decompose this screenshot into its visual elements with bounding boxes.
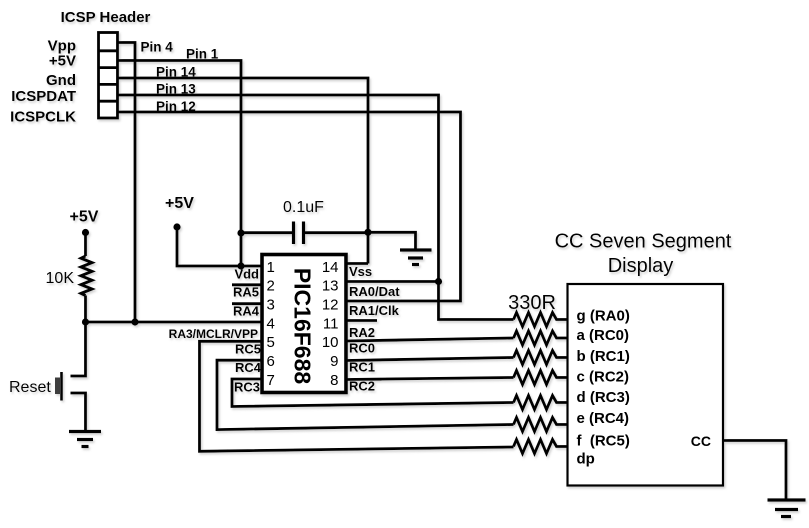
- svg-text:Pin 13: Pin 13: [156, 82, 196, 97]
- node junction Pin1 wire / Vdd net: [237, 262, 244, 269]
- connector J1 cell dividers: [99, 51, 118, 101]
- wire ICSP +5V to Vdd pin1: [118, 61, 242, 267]
- wire Vss net to ground GND2: [368, 232, 416, 250]
- svg-text:RA0/Dat: RA0/Dat: [349, 284, 400, 299]
- svg-text:RA5: RA5: [233, 285, 259, 300]
- svg-text:Vss: Vss: [349, 264, 372, 279]
- svg-text:RC2: RC2: [349, 379, 375, 394]
- svg-text:2: 2: [267, 278, 275, 295]
- svg-text:RC1: RC1: [349, 360, 375, 375]
- node junction Pin4 wire / RA3 net: [131, 318, 138, 325]
- wire stub RA4 pin3: [232, 302, 262, 305]
- switch SW1 reset lower contact: [71, 393, 86, 432]
- svg-text:Pin 12: Pin 12: [156, 99, 196, 114]
- wire CC common cathode to ground: [723, 441, 786, 501]
- node junction Vss net / capacitor / ground: [364, 229, 371, 236]
- svg-text:3: 3: [267, 297, 275, 314]
- resistor R2 segment g: [514, 313, 568, 327]
- svg-text:RA2: RA2: [349, 325, 375, 340]
- svg-text:10K: 10K: [46, 270, 75, 287]
- wire stub RA5 pin2: [232, 283, 262, 286]
- svg-text:dp: dp: [577, 451, 595, 468]
- svg-text:+5V: +5V: [165, 195, 194, 212]
- wire RC0 pin10 to segment a: [346, 338, 514, 341]
- svg-text:f (RC5): f (RC5): [577, 433, 630, 450]
- svg-text:RA4: RA4: [233, 303, 260, 318]
- node junction R1/reset/RA3: [82, 318, 89, 325]
- resistor R8 segment f: [514, 440, 568, 454]
- node junction RA0/Dat / ICSPDAT / segment g: [435, 278, 442, 285]
- svg-text:330R: 330R: [508, 292, 556, 314]
- svg-text:Pin 14: Pin 14: [156, 65, 196, 80]
- resistor R1 10K: [81, 256, 92, 296]
- svg-text:RC5: RC5: [235, 342, 261, 357]
- wire Vpp to pin4 RA3/MCLR net: [118, 43, 136, 323]
- op IC U1 PIC16F688 body: [262, 255, 346, 393]
- capacitor C1 left plate: [292, 222, 295, 245]
- svg-text:PIC16F688: PIC16F688: [290, 268, 316, 385]
- node junction Vdd net / capacitor: [237, 229, 244, 236]
- wire Vdd to capacitor C1: [241, 231, 294, 234]
- svg-text:Gnd: Gnd: [46, 72, 76, 89]
- resistor R7 segment e: [514, 418, 568, 432]
- svg-text:CC: CC: [691, 433, 711, 449]
- wire stub Vss pin14: [346, 262, 368, 265]
- wire ICSPDAT to RA0/Dat pin13 and segment g: [118, 95, 514, 320]
- svg-text:c (RC2): c (RC2): [577, 369, 630, 386]
- ground GND3 display cathode: [768, 500, 806, 517]
- svg-text:1: 1: [267, 259, 275, 276]
- svg-text:RC3: RC3: [234, 379, 260, 394]
- wire +5V to Vdd pin1: [177, 227, 262, 266]
- svg-text:RC4: RC4: [235, 360, 262, 375]
- svg-text:9: 9: [330, 353, 338, 370]
- svg-text:g (RA0): g (RA0): [577, 308, 630, 325]
- switch SW1 actuator bar: [60, 372, 63, 401]
- svg-text:CC Seven Segment: CC Seven Segment: [555, 231, 732, 253]
- svg-text:Reset: Reset: [9, 379, 51, 396]
- svg-text:Display: Display: [608, 255, 674, 277]
- svg-text:ICSPCLK: ICSPCLK: [10, 109, 76, 126]
- svg-text:e (RC4): e (RC4): [577, 410, 630, 427]
- svg-text:d (RC3): d (RC3): [577, 389, 630, 406]
- svg-text:7: 7: [267, 372, 275, 389]
- wire resistor R1 to junction: [84, 296, 87, 323]
- svg-text:Pin 1: Pin 1: [186, 47, 219, 62]
- wire RA3/MCLR/VPP net: [86, 321, 263, 324]
- ground GND2 top middle: [400, 250, 432, 265]
- svg-text:5: 5: [267, 334, 275, 351]
- svg-text:Vdd: Vdd: [234, 267, 259, 282]
- resistor R6 segment d: [514, 396, 568, 410]
- svg-text:RA3/MCLR/VPP: RA3/MCLR/VPP: [169, 327, 258, 341]
- node +5V Vdd terminal dot: [173, 223, 180, 230]
- svg-text:6: 6: [267, 353, 275, 370]
- svg-text:+5V: +5V: [49, 53, 76, 70]
- svg-text:ICSP Header: ICSP Header: [61, 9, 151, 26]
- svg-text:14: 14: [322, 259, 339, 276]
- wire capacitor C1 to Vss net: [304, 231, 369, 234]
- switch SW1 reset upper contact: [71, 322, 86, 376]
- wire ICSP Gnd to Vss pin14: [118, 78, 369, 264]
- svg-text:a (RC0): a (RC0): [577, 327, 630, 344]
- node +5V terminal dot: [82, 229, 89, 236]
- svg-text:0.1uF: 0.1uF: [283, 199, 324, 216]
- wire +5V to resistor R1: [84, 233, 87, 257]
- wire RC5 pin5 to segment f: [200, 341, 514, 451]
- svg-text:13: 13: [322, 278, 339, 295]
- resistor R3 segment a: [514, 331, 568, 345]
- svg-text:4: 4: [267, 315, 275, 332]
- wire ICSPCLK to RA1/Clk pin12: [118, 112, 461, 301]
- capacitor C1 right plate: [302, 222, 305, 245]
- svg-text:b (RC1): b (RC1): [577, 348, 630, 365]
- svg-text:RC0: RC0: [349, 341, 375, 356]
- wire RC3 pin7 to segment d: [232, 379, 514, 407]
- wire stub RA2 pin11: [346, 319, 377, 322]
- connector J1 ICSP header body: [99, 33, 118, 119]
- svg-text:Pin 4: Pin 4: [141, 40, 174, 55]
- svg-text:+5V: +5V: [70, 209, 99, 226]
- resistor R5 segment c: [514, 371, 568, 385]
- display DS1 CC seven segment body: [568, 284, 724, 486]
- resistor R4 segment b: [514, 351, 568, 365]
- wire RC2 pin8 to segment c: [346, 378, 514, 380]
- ground GND1 below reset: [69, 432, 101, 447]
- svg-text:ICSPDAT: ICSPDAT: [11, 88, 76, 105]
- svg-text:8: 8: [330, 372, 338, 389]
- svg-text:10: 10: [322, 334, 339, 351]
- wire RA0/Dat pin13 to junction: [346, 280, 439, 283]
- svg-text:11: 11: [323, 315, 339, 332]
- switch SW1 button cap: [55, 378, 61, 395]
- wire RC4 pin6 to segment e: [217, 360, 514, 429]
- svg-text:RA1/Clk: RA1/Clk: [349, 303, 400, 318]
- svg-text:12: 12: [322, 297, 339, 314]
- wire RC1 pin9 to segment b: [346, 358, 514, 361]
